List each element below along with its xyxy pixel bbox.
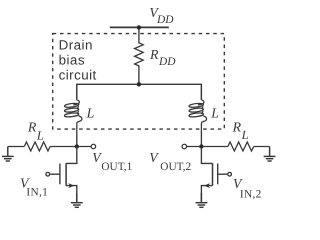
transistor M1 drain wire (66, 147, 77, 164)
wire: VDD supply bar (110, 26, 169, 28)
svg-text:OUT,1: OUT,1 (101, 161, 132, 173)
terminal VIN1 (46, 172, 50, 176)
wire: left coil to node 1 (76, 131, 78, 147)
inductor L left (64, 84, 82, 131)
transistor M2 source wire (201, 186, 212, 203)
wire: VDD to RDD (138, 27, 140, 43)
junction on bias rail (137, 82, 141, 86)
ground below M1 (71, 193, 83, 208)
junction node 2 (199, 144, 203, 148)
transistor M2 drain wire (201, 147, 212, 164)
junction node 1 (75, 144, 79, 148)
transistor M1 gate bar (59, 164, 61, 185)
wire: right coil to node 2 (200, 131, 202, 147)
wire: VOUT2 to node 2 and RL right (187, 146, 228, 148)
svg-text:Drain: Drain (59, 37, 93, 52)
wire: RDD to bias rail (138, 66, 140, 85)
svg-text:L: L (210, 106, 219, 121)
terminal VIN2 (228, 172, 232, 176)
dashed box: drain bias circuit (53, 34, 225, 130)
svg-text:IN,2: IN,2 (240, 188, 262, 200)
svg-text:R: R (149, 47, 159, 62)
ground left (2, 147, 14, 162)
svg-text:circuit: circuit (59, 67, 97, 82)
wire: RL left to output node 1 (50, 146, 91, 148)
svg-text:bias: bias (59, 53, 85, 68)
svg-text:L: L (86, 106, 95, 121)
svg-text:OUT,2: OUT,2 (160, 161, 191, 173)
svg-text:DD: DD (158, 56, 176, 68)
inductor L right (189, 84, 207, 131)
junction at VDD bar (137, 25, 141, 29)
transistor M1 source arrow (68, 183, 74, 188)
terminal VOUT2 (182, 144, 187, 149)
svg-text:IN,1: IN,1 (26, 187, 48, 199)
terminal VOUT1 (91, 144, 96, 149)
transistor M2 gate bar (217, 164, 219, 185)
svg-text:R: R (27, 120, 37, 135)
svg-text:L: L (36, 128, 44, 142)
transistor M2 gate lead (218, 173, 228, 175)
ground below M2 (196, 193, 208, 208)
ground right (264, 147, 276, 162)
transistor M2 channel bar (212, 163, 214, 186)
resistor RDD (vertical zigzag) (135, 43, 144, 66)
svg-text:V: V (149, 150, 159, 165)
wire: RL right to ground (254, 146, 270, 148)
svg-text:R: R (232, 119, 242, 134)
wire: left ground to RL (8, 146, 25, 148)
resistor RL left (24, 142, 50, 151)
wire: bias rail horizontal (77, 84, 202, 99)
svg-text:L: L (241, 128, 249, 142)
transistor M2 source arrow (204, 183, 210, 188)
transistor M1 channel bar (65, 163, 67, 186)
transistor M1 source wire (66, 186, 77, 203)
transistor M1 gate lead (50, 173, 60, 175)
resistor RL right (228, 142, 254, 151)
svg-text:DD: DD (156, 14, 174, 26)
